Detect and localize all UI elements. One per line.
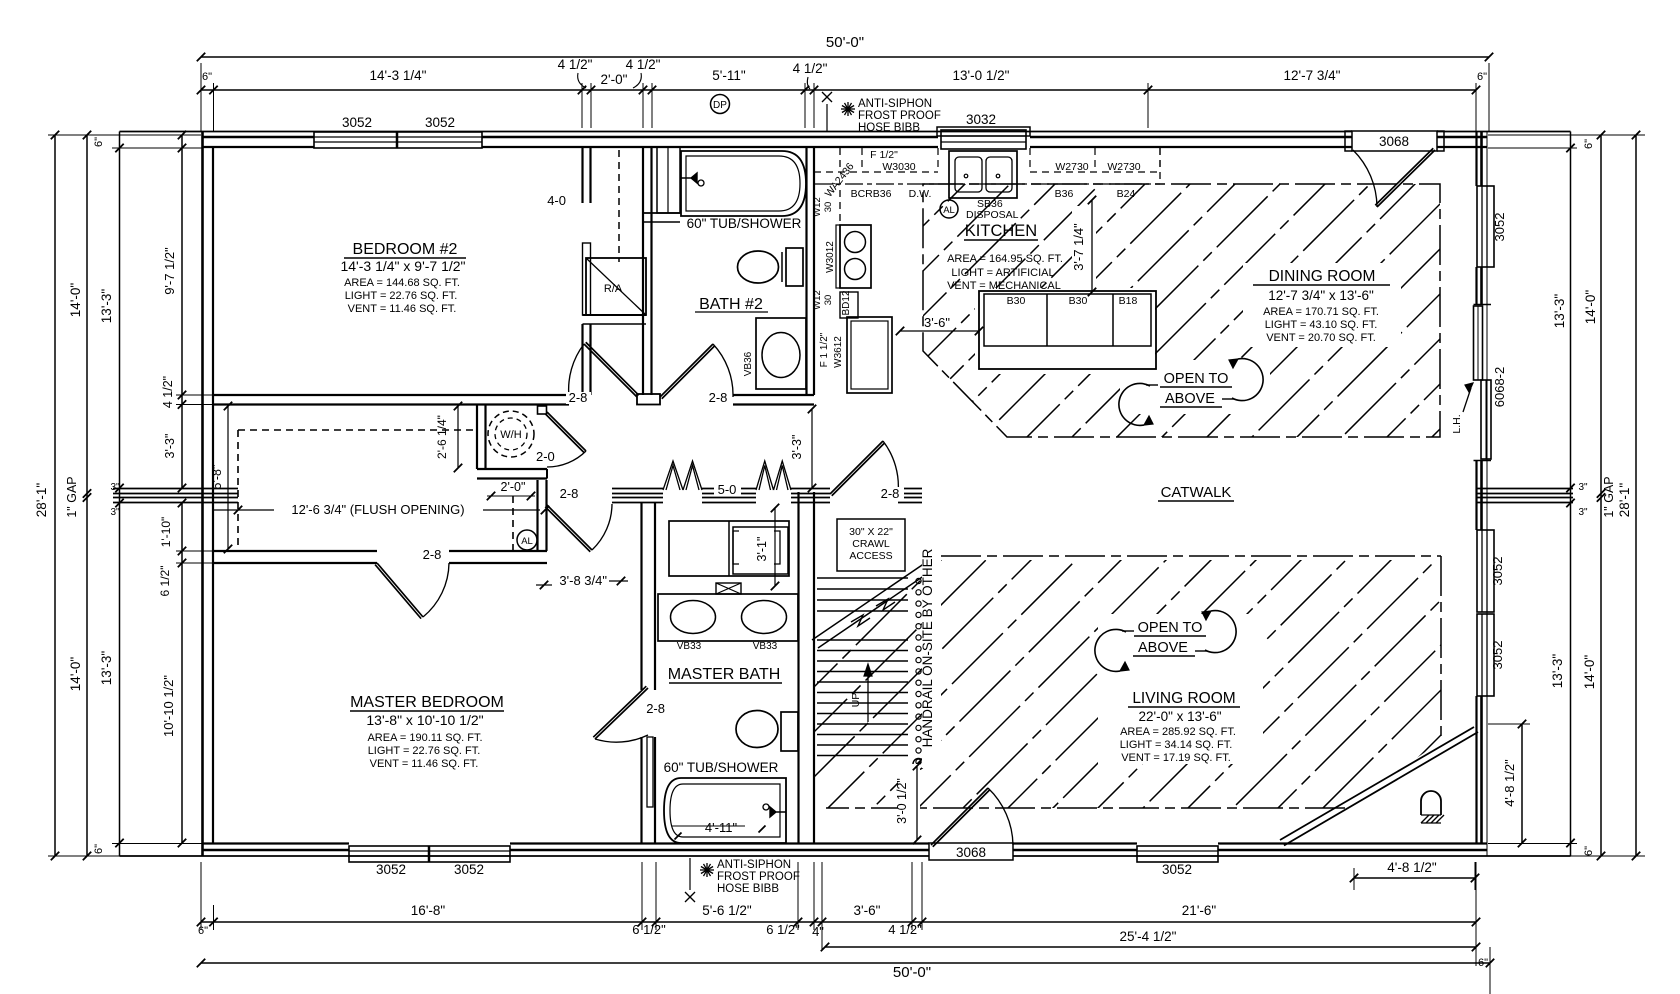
svg-text:HOSE BIBB: HOSE BIBB	[858, 122, 920, 134]
svg-text:LIVING ROOM: LIVING ROOM	[1132, 690, 1235, 707]
svg-text:14'-3 1/4" x 9'-7 1/2": 14'-3 1/4" x 9'-7 1/2"	[340, 258, 465, 274]
svg-text:VENT = 17.19 SQ. FT.: VENT = 17.19 SQ. FT.	[1121, 752, 1231, 764]
svg-text:2-8: 2-8	[569, 390, 588, 405]
svg-text:60" TUB/SHOWER: 60" TUB/SHOWER	[687, 216, 802, 231]
svg-text:4 1/2": 4 1/2"	[558, 57, 593, 72]
svg-text:ABOVE: ABOVE	[1138, 640, 1188, 656]
svg-text:UP: UP	[850, 693, 862, 708]
svg-text:4'-8 1/2": 4'-8 1/2"	[1387, 860, 1437, 875]
svg-text:1'-10": 1'-10"	[159, 517, 173, 548]
svg-text:28'-1": 28'-1"	[34, 483, 49, 518]
svg-text:CATWALK: CATWALK	[1161, 484, 1232, 501]
svg-text:F 1 1/2": F 1 1/2"	[819, 332, 830, 367]
svg-text:6 1/2": 6 1/2"	[632, 922, 666, 937]
svg-text:3052: 3052	[1490, 641, 1505, 670]
svg-text:LIGHT = 22.76 SQ. FT.: LIGHT = 22.76 SQ. FT.	[368, 745, 481, 757]
svg-text:DP: DP	[713, 100, 727, 111]
svg-text:W2730: W2730	[1107, 161, 1140, 173]
svg-text:B30: B30	[1007, 295, 1026, 307]
svg-text:2'-6 1/4": 2'-6 1/4"	[435, 415, 449, 459]
svg-text:4 1/2": 4 1/2"	[793, 61, 828, 76]
svg-text:3'-3": 3'-3"	[163, 434, 177, 459]
svg-text:6": 6"	[1583, 139, 1595, 149]
svg-text:AREA = 164.95 SQ. FT.: AREA = 164.95 SQ. FT.	[947, 253, 1063, 265]
svg-text:3052: 3052	[425, 115, 455, 130]
svg-text:ABOVE: ABOVE	[1165, 391, 1215, 407]
svg-text:DISPOSAL: DISPOSAL	[966, 209, 1019, 221]
svg-text:3'-6": 3'-6"	[854, 903, 881, 918]
svg-text:14'-3 1/4": 14'-3 1/4"	[370, 68, 427, 83]
svg-text:3052: 3052	[1162, 862, 1192, 877]
svg-text:3052: 3052	[376, 862, 406, 877]
svg-text:W12: W12	[812, 197, 823, 217]
svg-text:28'-1": 28'-1"	[1617, 483, 1632, 518]
svg-text:W3612: W3612	[833, 336, 844, 368]
svg-text:KITCHEN: KITCHEN	[965, 222, 1037, 240]
svg-text:ANTI-SIPHON: ANTI-SIPHON	[858, 98, 932, 110]
svg-text:3": 3"	[110, 507, 120, 518]
svg-text:LIGHT = 43.10 SQ. FT.: LIGHT = 43.10 SQ. FT.	[1265, 319, 1378, 331]
svg-text:3'-1": 3'-1"	[755, 537, 769, 562]
svg-text:4'-11": 4'-11"	[705, 820, 738, 835]
svg-text:12'-6 3/4" (FLUSH OPENING): 12'-6 3/4" (FLUSH OPENING)	[291, 502, 464, 517]
svg-text:VENT = 20.70 SQ. FT.: VENT = 20.70 SQ. FT.	[1266, 332, 1376, 344]
svg-text:2-8: 2-8	[881, 486, 900, 501]
svg-text:6": 6"	[1477, 71, 1487, 83]
svg-text:OPEN TO: OPEN TO	[1138, 620, 1203, 636]
svg-text:HANDRAIL ON-SITE BY OTHER: HANDRAIL ON-SITE BY OTHER	[920, 548, 935, 747]
svg-text:W3030: W3030	[882, 161, 915, 173]
svg-text:R/A: R/A	[604, 283, 623, 295]
svg-text:W3012: W3012	[825, 241, 836, 273]
svg-text:BD12: BD12	[841, 290, 852, 315]
svg-text:6": 6"	[1478, 957, 1488, 969]
svg-text:ANTI-SIPHON: ANTI-SIPHON	[717, 859, 791, 871]
svg-text:12'-7 3/4" x 13'-6": 12'-7 3/4" x 13'-6"	[1268, 288, 1374, 303]
svg-text:LIGHT = ARTIFICIAL: LIGHT = ARTIFICIAL	[951, 267, 1054, 279]
svg-text:50'-0": 50'-0"	[826, 34, 864, 51]
svg-text:1" GAP: 1" GAP	[65, 476, 79, 517]
svg-text:W2730: W2730	[1055, 161, 1088, 173]
svg-text:13'-0 1/2": 13'-0 1/2"	[953, 68, 1010, 83]
svg-text:3": 3"	[110, 482, 120, 493]
svg-text:B18: B18	[1119, 295, 1138, 307]
svg-text:14'-0": 14'-0"	[68, 657, 83, 692]
svg-text:13'-8" x 10'-10 1/2": 13'-8" x 10'-10 1/2"	[366, 712, 483, 728]
svg-text:BATH #2: BATH #2	[699, 296, 763, 313]
svg-text:3052: 3052	[454, 862, 484, 877]
svg-text:VENT = 11.46 SQ. FT.: VENT = 11.46 SQ. FT.	[370, 758, 479, 770]
svg-text:4": 4"	[812, 924, 824, 939]
svg-text:3'-0 1/2": 3'-0 1/2"	[895, 778, 909, 824]
svg-text:3'-3": 3'-3"	[790, 435, 804, 460]
svg-text:VB33: VB33	[677, 641, 702, 652]
svg-text:ACCESS: ACCESS	[849, 550, 892, 562]
svg-text:3'-7 1/4": 3'-7 1/4"	[1071, 223, 1086, 271]
svg-text:VENT = MECHANICAL: VENT = MECHANICAL	[947, 280, 1061, 292]
svg-text:14'-0": 14'-0"	[1583, 290, 1598, 325]
svg-text:3052: 3052	[1490, 557, 1505, 586]
svg-text:3": 3"	[1578, 507, 1588, 518]
svg-text:14'-0": 14'-0"	[68, 283, 83, 318]
svg-text:2-8: 2-8	[709, 390, 728, 405]
svg-text:2-8: 2-8	[560, 486, 579, 501]
svg-text:VB36: VB36	[743, 351, 754, 376]
svg-text:13'-3": 13'-3"	[1552, 294, 1567, 329]
svg-text:MASTER BEDROOM: MASTER BEDROOM	[350, 694, 504, 711]
svg-text:1" GAP: 1" GAP	[1602, 476, 1616, 517]
svg-text:6": 6"	[93, 844, 105, 854]
svg-text:3068: 3068	[956, 845, 986, 860]
svg-text:16'-8": 16'-8"	[411, 903, 446, 918]
svg-text:B24: B24	[1117, 188, 1136, 200]
svg-text:BEDROOM #2: BEDROOM #2	[353, 241, 458, 258]
svg-text:13'-3": 13'-3"	[1550, 654, 1565, 689]
svg-text:30: 30	[823, 202, 834, 213]
svg-text:FROST PROOF: FROST PROOF	[858, 110, 941, 122]
svg-text:3032: 3032	[966, 112, 996, 127]
svg-text:4 1/2": 4 1/2"	[888, 922, 922, 937]
svg-text:AREA = 190.11 SQ. FT.: AREA = 190.11 SQ. FT.	[367, 732, 482, 744]
svg-text:3'-8 3/4": 3'-8 3/4"	[559, 573, 607, 588]
svg-text:2'-0": 2'-0"	[601, 72, 628, 87]
svg-text:AL: AL	[521, 536, 533, 547]
svg-text:2'-0": 2'-0"	[501, 480, 526, 494]
svg-text:B30: B30	[1069, 295, 1088, 307]
svg-text:MASTER BATH: MASTER BATH	[668, 666, 781, 683]
svg-text:DINING ROOM: DINING ROOM	[1269, 268, 1376, 285]
svg-text:5'-6 1/2": 5'-6 1/2"	[702, 903, 752, 918]
svg-text:HOSE BIBB: HOSE BIBB	[717, 883, 779, 895]
svg-text:3'-6": 3'-6"	[924, 315, 950, 330]
svg-text:AREA = 285.92 SQ. FT.: AREA = 285.92 SQ. FT.	[1120, 726, 1236, 738]
svg-text:6 1/2": 6 1/2"	[766, 922, 800, 937]
svg-text:LIGHT = 22.76 SQ. FT.: LIGHT = 22.76 SQ. FT.	[345, 290, 458, 302]
svg-text:2-8: 2-8	[646, 701, 665, 716]
svg-text:3": 3"	[1578, 482, 1588, 493]
svg-text:6": 6"	[93, 137, 105, 147]
svg-text:9'-7 1/2": 9'-7 1/2"	[162, 247, 177, 295]
svg-text:W/H: W/H	[500, 429, 521, 441]
svg-text:12'-7 3/4": 12'-7 3/4"	[1284, 68, 1341, 83]
svg-text:30: 30	[823, 295, 834, 306]
svg-text:6068-2: 6068-2	[1492, 367, 1507, 407]
svg-text:LIGHT = 34.14 SQ. FT.: LIGHT = 34.14 SQ. FT.	[1120, 739, 1233, 751]
svg-text:OPEN TO: OPEN TO	[1164, 371, 1229, 387]
svg-text:10'-10 1/2": 10'-10 1/2"	[161, 675, 176, 737]
svg-text:14'-0": 14'-0"	[1582, 655, 1597, 690]
svg-text:3068: 3068	[1379, 134, 1409, 149]
svg-text:21'-6": 21'-6"	[1182, 903, 1217, 918]
svg-text:4 1/2": 4 1/2"	[626, 57, 661, 72]
svg-text:13'-3": 13'-3"	[99, 651, 114, 686]
svg-text:5'-11": 5'-11"	[712, 68, 746, 83]
svg-text:50'-0": 50'-0"	[893, 964, 931, 981]
svg-text:4'-8 1/2": 4'-8 1/2"	[1502, 759, 1517, 807]
svg-text:22'-0" x 13'-6": 22'-0" x 13'-6"	[1138, 709, 1221, 724]
svg-text:D.W.: D.W.	[909, 188, 932, 200]
svg-text:60" TUB/SHOWER: 60" TUB/SHOWER	[664, 760, 779, 775]
svg-text:L.H.: L.H.	[1451, 414, 1463, 433]
svg-text:6": 6"	[198, 925, 208, 937]
svg-text:CRAWL: CRAWL	[852, 538, 890, 550]
svg-text:2-8: 2-8	[423, 547, 442, 562]
svg-text:4-0: 4-0	[547, 193, 566, 208]
svg-text:FROST PROOF: FROST PROOF	[717, 871, 800, 883]
svg-text:W12: W12	[812, 290, 823, 310]
svg-text:4 1/2": 4 1/2"	[161, 376, 175, 408]
svg-text:VB33: VB33	[753, 641, 778, 652]
svg-text:AREA = 144.68 SQ. FT.: AREA = 144.68 SQ. FT.	[344, 277, 460, 289]
svg-text:30" X 22": 30" X 22"	[849, 526, 893, 538]
svg-text:B36: B36	[1055, 188, 1074, 200]
svg-text:6": 6"	[1583, 846, 1595, 856]
svg-text:AREA = 170.71 SQ. FT.: AREA = 170.71 SQ. FT.	[1263, 306, 1379, 318]
svg-text:5'-8": 5'-8"	[210, 465, 224, 490]
svg-text:5-0: 5-0	[718, 482, 737, 497]
svg-text:6 1/2": 6 1/2"	[158, 566, 172, 597]
svg-text:F 1/2": F 1/2"	[870, 149, 898, 161]
svg-text:3052: 3052	[1492, 213, 1507, 242]
svg-text:AL: AL	[943, 205, 955, 216]
svg-text:BCRB36: BCRB36	[851, 188, 892, 200]
svg-text:3052: 3052	[342, 115, 372, 130]
svg-text:2-0: 2-0	[536, 449, 555, 464]
svg-text:13'-3": 13'-3"	[99, 289, 114, 324]
svg-text:6": 6"	[202, 71, 212, 83]
svg-text:VENT = 11.46 SQ. FT.: VENT = 11.46 SQ. FT.	[348, 303, 457, 315]
svg-text:25'-4 1/2": 25'-4 1/2"	[1120, 929, 1177, 944]
